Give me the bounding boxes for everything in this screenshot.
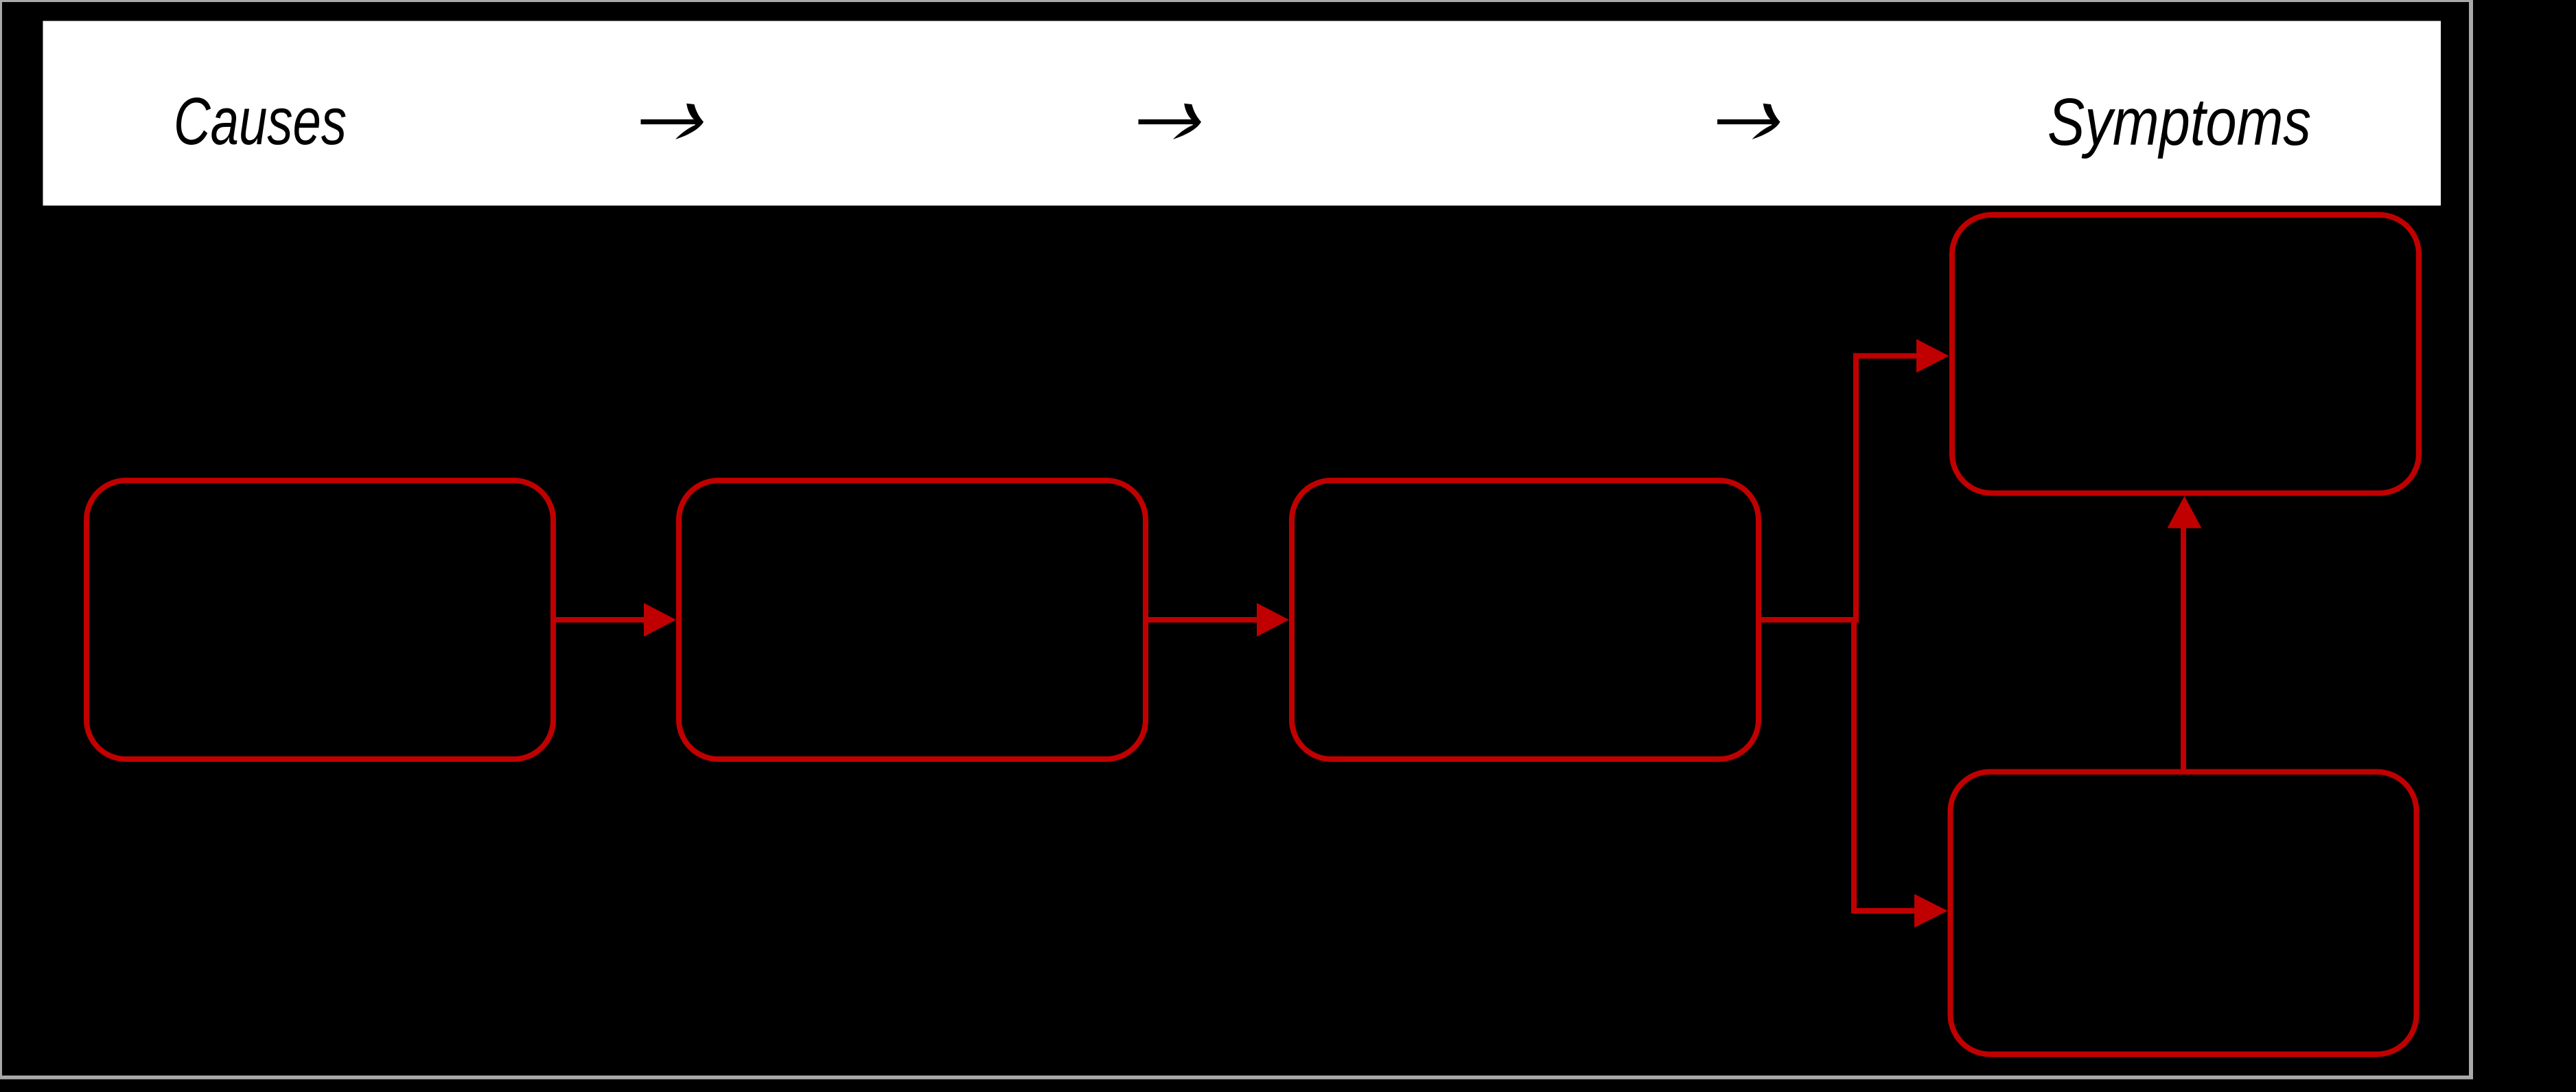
connector stub box3 to split (1759, 617, 1857, 623)
header arrow glyph 1 (641, 104, 704, 139)
flowchart box 1 (causes, left) (86, 480, 553, 759)
split elbow line (vertical distribution with top and bottom branches) (1854, 356, 1916, 911)
header arrow glyph 3 (1717, 104, 1780, 139)
connector arrow box1 to box2: head (644, 603, 676, 637)
flowchart box 3 (1292, 480, 1759, 759)
branch arrowhead into box 4 (1916, 339, 1949, 373)
svg-text:Causes: Causes (174, 84, 347, 159)
connector arrow box2 to box3: head (1257, 603, 1289, 637)
connector arrow box1 to box2: shaft (553, 617, 644, 623)
header arrow glyph 2 (1139, 104, 1202, 139)
header white bar (43, 21, 2441, 206)
slide border top (0, 0, 2473, 2)
connector arrow box2 to box3: shaft (1146, 617, 1257, 623)
up arrow box5 to box4: shaft (2181, 528, 2186, 770)
flowchart box 5 (symptom, bottom right) (1951, 772, 2417, 1055)
flowchart box 2 (679, 480, 1146, 759)
branch arrowhead into box 5 (1914, 894, 1948, 928)
slide border right (2469, 0, 2473, 1080)
svg-text:Symptoms: Symptoms (2047, 84, 2311, 159)
slide border bottom (0, 1076, 2473, 1080)
flowchart box 4 (symptom, top right) (1952, 215, 2419, 493)
up arrow box5 to box4: head (2168, 496, 2202, 528)
slide border left (0, 0, 2, 1080)
